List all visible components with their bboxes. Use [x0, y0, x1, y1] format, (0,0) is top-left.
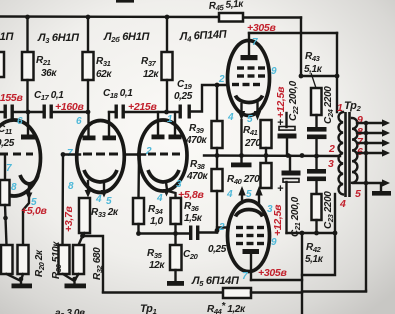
- pentode L4 envelope: [228, 41, 270, 116]
- svg-text:9: 9: [271, 237, 277, 248]
- svg-text:Л5 6П14П: Л5 6П14П: [191, 275, 240, 288]
- node: rail junction to R21: [25, 15, 30, 20]
- wire: V2 side to V3 grid node: [124, 153, 145, 155]
- wire: C20 to L5 grid / R38: [200, 228, 229, 233]
- ground for V2 pair: [63, 274, 74, 281]
- svg-text:С21 200,0: С21 200,0: [290, 196, 302, 237]
- svg-text:7: 7: [252, 37, 258, 48]
- svg-text:R32 680: R32 680: [92, 247, 104, 280]
- V1 grid lead down to grid resistor: [4, 154, 6, 180]
- svg-text:R33 2к: R33 2к: [91, 207, 119, 219]
- svg-text:5,1к: 5,1к: [305, 254, 324, 265]
- V2 cathode: [84, 170, 117, 182]
- resistor R21 36k: [26, 17, 28, 52]
- svg-text:С22 200,0: С22 200,0: [288, 80, 300, 121]
- svg-text:4: 4: [227, 112, 234, 123]
- resistor R40 270: [265, 156, 267, 164]
- svg-text:+12,5в: +12,5в: [272, 204, 284, 236]
- chassis ground at output: [380, 185, 382, 191]
- svg-text:а2 3,0в: а2 3,0в: [55, 308, 85, 314]
- svg-text:8: 8: [68, 181, 74, 192]
- wire: common return to output ground: [302, 290, 366, 293]
- svg-text:R30 510к: R30 510к: [51, 241, 63, 279]
- resistor R33 2k: [79, 198, 90, 233]
- resistor R35 12k: [174, 234, 176, 246]
- node: rail junction to R37: [165, 15, 170, 20]
- svg-text:1,0: 1,0: [150, 216, 164, 227]
- svg-text:4: 4: [156, 193, 163, 204]
- grid bar of L5 tied to bus: [240, 156, 242, 164]
- svg-text:R20 2к: R20 2к: [34, 249, 46, 277]
- svg-text:Н1П: Н1П: [0, 31, 14, 43]
- node: R34/R36/R35/C20: [173, 231, 178, 236]
- svg-text:+12,5в: +12,5в: [275, 86, 287, 118]
- resistor R32 680: [79, 236, 83, 245]
- resistor in V1 grid return (bottom left, label off frame): [1, 245, 13, 274]
- wire: L4 cathode arrow to bus: [240, 120, 242, 156]
- svg-text:0,25: 0,25: [208, 244, 227, 255]
- output arrows 9/8/7/6: [357, 122, 384, 124]
- L4 anode: [241, 55, 258, 60]
- capacitor C24 2200: [307, 127, 327, 132]
- svg-text:5: 5: [246, 189, 252, 200]
- svg-text:6: 6: [17, 116, 23, 127]
- svg-text:5: 5: [106, 196, 112, 207]
- V2 anode a: [87, 112, 89, 136]
- ground for V1 pair: [7, 274, 21, 281]
- svg-text:5: 5: [247, 114, 253, 125]
- svg-text:0,25: 0,25: [0, 138, 15, 149]
- capacitor C22 200,0 electrolytic: [285, 113, 287, 127]
- V1 grid: [0, 153, 33, 156]
- svg-text:470к: 470к: [186, 171, 208, 182]
- svg-text:+3,7в: +3,7в: [63, 205, 75, 232]
- node: R31 / C17 / triode2 left anode: [86, 110, 91, 115]
- capacitor C20 0,25: [189, 226, 192, 241]
- Tr2 primary winding: [339, 112, 343, 194]
- svg-text:7: 7: [6, 163, 12, 174]
- node: rail junction to R31: [86, 15, 91, 20]
- V1 cathode: [20, 175, 38, 184]
- resistor (cut at left edge, anode load of previous stage): [0, 52, 4, 77]
- V2 anode b: [108, 112, 110, 136]
- wire: loop from node row to anode feed: [302, 233, 335, 275]
- L5 cathode/g3 leads with arrows (pointing up): [241, 194, 243, 203]
- output arrow 5 (common): [353, 182, 384, 184]
- svg-text:0,25: 0,25: [174, 91, 193, 102]
- V2 cathode leads with arrows: [87, 181, 89, 191]
- V3 anode a: [157, 112, 159, 135]
- L5 anode: [243, 249, 260, 254]
- V1 cathode lead with arrow: [28, 184, 30, 194]
- svg-text:9: 9: [271, 66, 277, 77]
- wire: R33 bottom to feedback bus: [83, 236, 104, 292]
- svg-text:2: 2: [328, 143, 335, 155]
- resistor R36 1,5k: [168, 191, 176, 198]
- L4 grids: [232, 68, 265, 85]
- transformer Tr2 core: [344, 112, 347, 197]
- capacitor C23 2200: [315, 156, 317, 169]
- resistor R30 510k: [59, 245, 70, 274]
- svg-text:12к: 12к: [143, 69, 159, 80]
- svg-text:Л3 6Н1П: Л3 6Н1П: [37, 32, 80, 45]
- svg-text:R40 270: R40 270: [227, 174, 260, 186]
- svg-text:+155в: +155в: [0, 92, 23, 104]
- V1 anode: [27, 112, 29, 135]
- resistor R20 2k: [18, 245, 29, 274]
- wire: +305v top supply rail: [0, 15, 219, 18]
- triode tube V2 (L2b) envelope: [77, 121, 125, 193]
- wire: +305v rail right section: [300, 18, 302, 77]
- svg-text:1: 1: [167, 114, 173, 125]
- svg-text:1,5к: 1,5к: [184, 213, 203, 224]
- resistor R44* 1,2k: [223, 288, 251, 298]
- resistor R39 470k: [216, 85, 218, 121]
- resistor R38 470k (L5 grid leak): [216, 156, 218, 170]
- wire: V2 grid to R30: [61, 155, 64, 246]
- feedback bus to Tr1: [103, 291, 223, 293]
- secondary tap rail: [365, 123, 367, 291]
- svg-text:+305в: +305в: [258, 267, 287, 279]
- svg-text:1: 1: [337, 102, 343, 114]
- node: R37 / C19 / triode3 anode: [164, 110, 169, 115]
- svg-text:5: 5: [355, 188, 361, 200]
- node: bus junctions: [215, 153, 220, 158]
- wire: lower node row: [287, 232, 336, 234]
- svg-text:36к: 36к: [41, 68, 57, 79]
- resistor R37 12k: [166, 17, 168, 52]
- resistor R41 270: [261, 120, 272, 148]
- L5 grids: [236, 228, 264, 244]
- resistor R31 62k: [87, 17, 89, 52]
- resistor R34 1,0: [137, 155, 140, 199]
- scan artifact mark at top edge: [116, 0, 134, 3]
- capacitor C21 200,0 electrolytic: [289, 156, 291, 172]
- wire: L5 anode +305v run: [251, 279, 302, 281]
- svg-text:6: 6: [76, 116, 82, 127]
- V3 anode b: [174, 112, 176, 135]
- grid resistor (cut label) below V1 grid: [0, 180, 10, 205]
- svg-text:Л2б 6Н1П: Л2б 6Н1П: [103, 31, 151, 44]
- Tr2 secondary winding: [352, 118, 357, 183]
- svg-text:С17 0,1: С17 0,1: [34, 90, 64, 102]
- ground below R35: [174, 270, 176, 282]
- resistor R42 5,1k: [312, 194, 322, 220]
- svg-text:12к: 12к: [149, 260, 165, 271]
- svg-text:8: 8: [11, 182, 17, 193]
- node: grid of L4 / R39: [215, 83, 220, 88]
- L5 cathode: [236, 210, 263, 217]
- capacitor C11 0,25 (cut at left edge): [0, 111, 4, 113]
- node: R33 bottom: [83, 233, 85, 236]
- svg-text:62к: 62к: [96, 69, 112, 80]
- svg-text:С23 2200: С23 2200: [323, 191, 335, 229]
- triode tube V1 (L3) envelope, cut at left edge: [0, 120, 41, 196]
- svg-text:270: 270: [244, 138, 261, 149]
- svg-text:4: 4: [339, 198, 346, 210]
- wire: R34/R36 bottoms to common node: [139, 224, 191, 234]
- L4 cathode/g3 leads with arrows: [240, 104, 242, 112]
- node: V3 grid / R34: [137, 152, 142, 157]
- svg-text:С24 2200: С24 2200: [323, 86, 335, 124]
- svg-text:470к: 470к: [185, 135, 207, 146]
- wire: C19 to output tube L4 grid: [191, 85, 227, 112]
- capacitor C17 0,1: [43, 105, 46, 119]
- L4 cathode: [236, 96, 263, 103]
- wire: tap 4 down to node row: [334, 194, 336, 233]
- wire: V1 cathode to R20: [23, 197, 29, 245]
- svg-text:4: 4: [95, 194, 102, 205]
- svg-text:3: 3: [328, 158, 334, 170]
- wire: right vertical +305v feed: [301, 233, 303, 314]
- svg-text:7: 7: [242, 271, 248, 282]
- triode tube V3 (L4b) envelope: [139, 120, 187, 191]
- V3 cathode: [148, 170, 179, 182]
- node: R21 / C17 / triode1 anode: [26, 110, 31, 115]
- svg-text:С18 0,1: С18 0,1: [103, 88, 133, 100]
- V3 cathode lead with arrow: [166, 182, 167, 190]
- svg-text:+5,0в: +5,0в: [21, 205, 48, 217]
- svg-text:2: 2: [218, 74, 225, 85]
- svg-text:4: 4: [226, 189, 233, 200]
- svg-text:+: +: [277, 183, 284, 195]
- V3 grid dashes: [148, 153, 180, 156]
- resistor R45 5,1k (horizontal, in rail): [219, 13, 243, 22]
- svg-text:2: 2: [218, 222, 225, 233]
- capacitor C18 0,1: [115, 105, 118, 119]
- svg-text:5,1к: 5,1к: [304, 64, 323, 75]
- pentode L5 envelope: [228, 201, 270, 272]
- node: V2 grid: [61, 152, 66, 157]
- V2 grid: [63, 153, 80, 155]
- screen/cathode bus: [204, 154, 340, 157]
- capacitor C19 0,25: [179, 105, 182, 119]
